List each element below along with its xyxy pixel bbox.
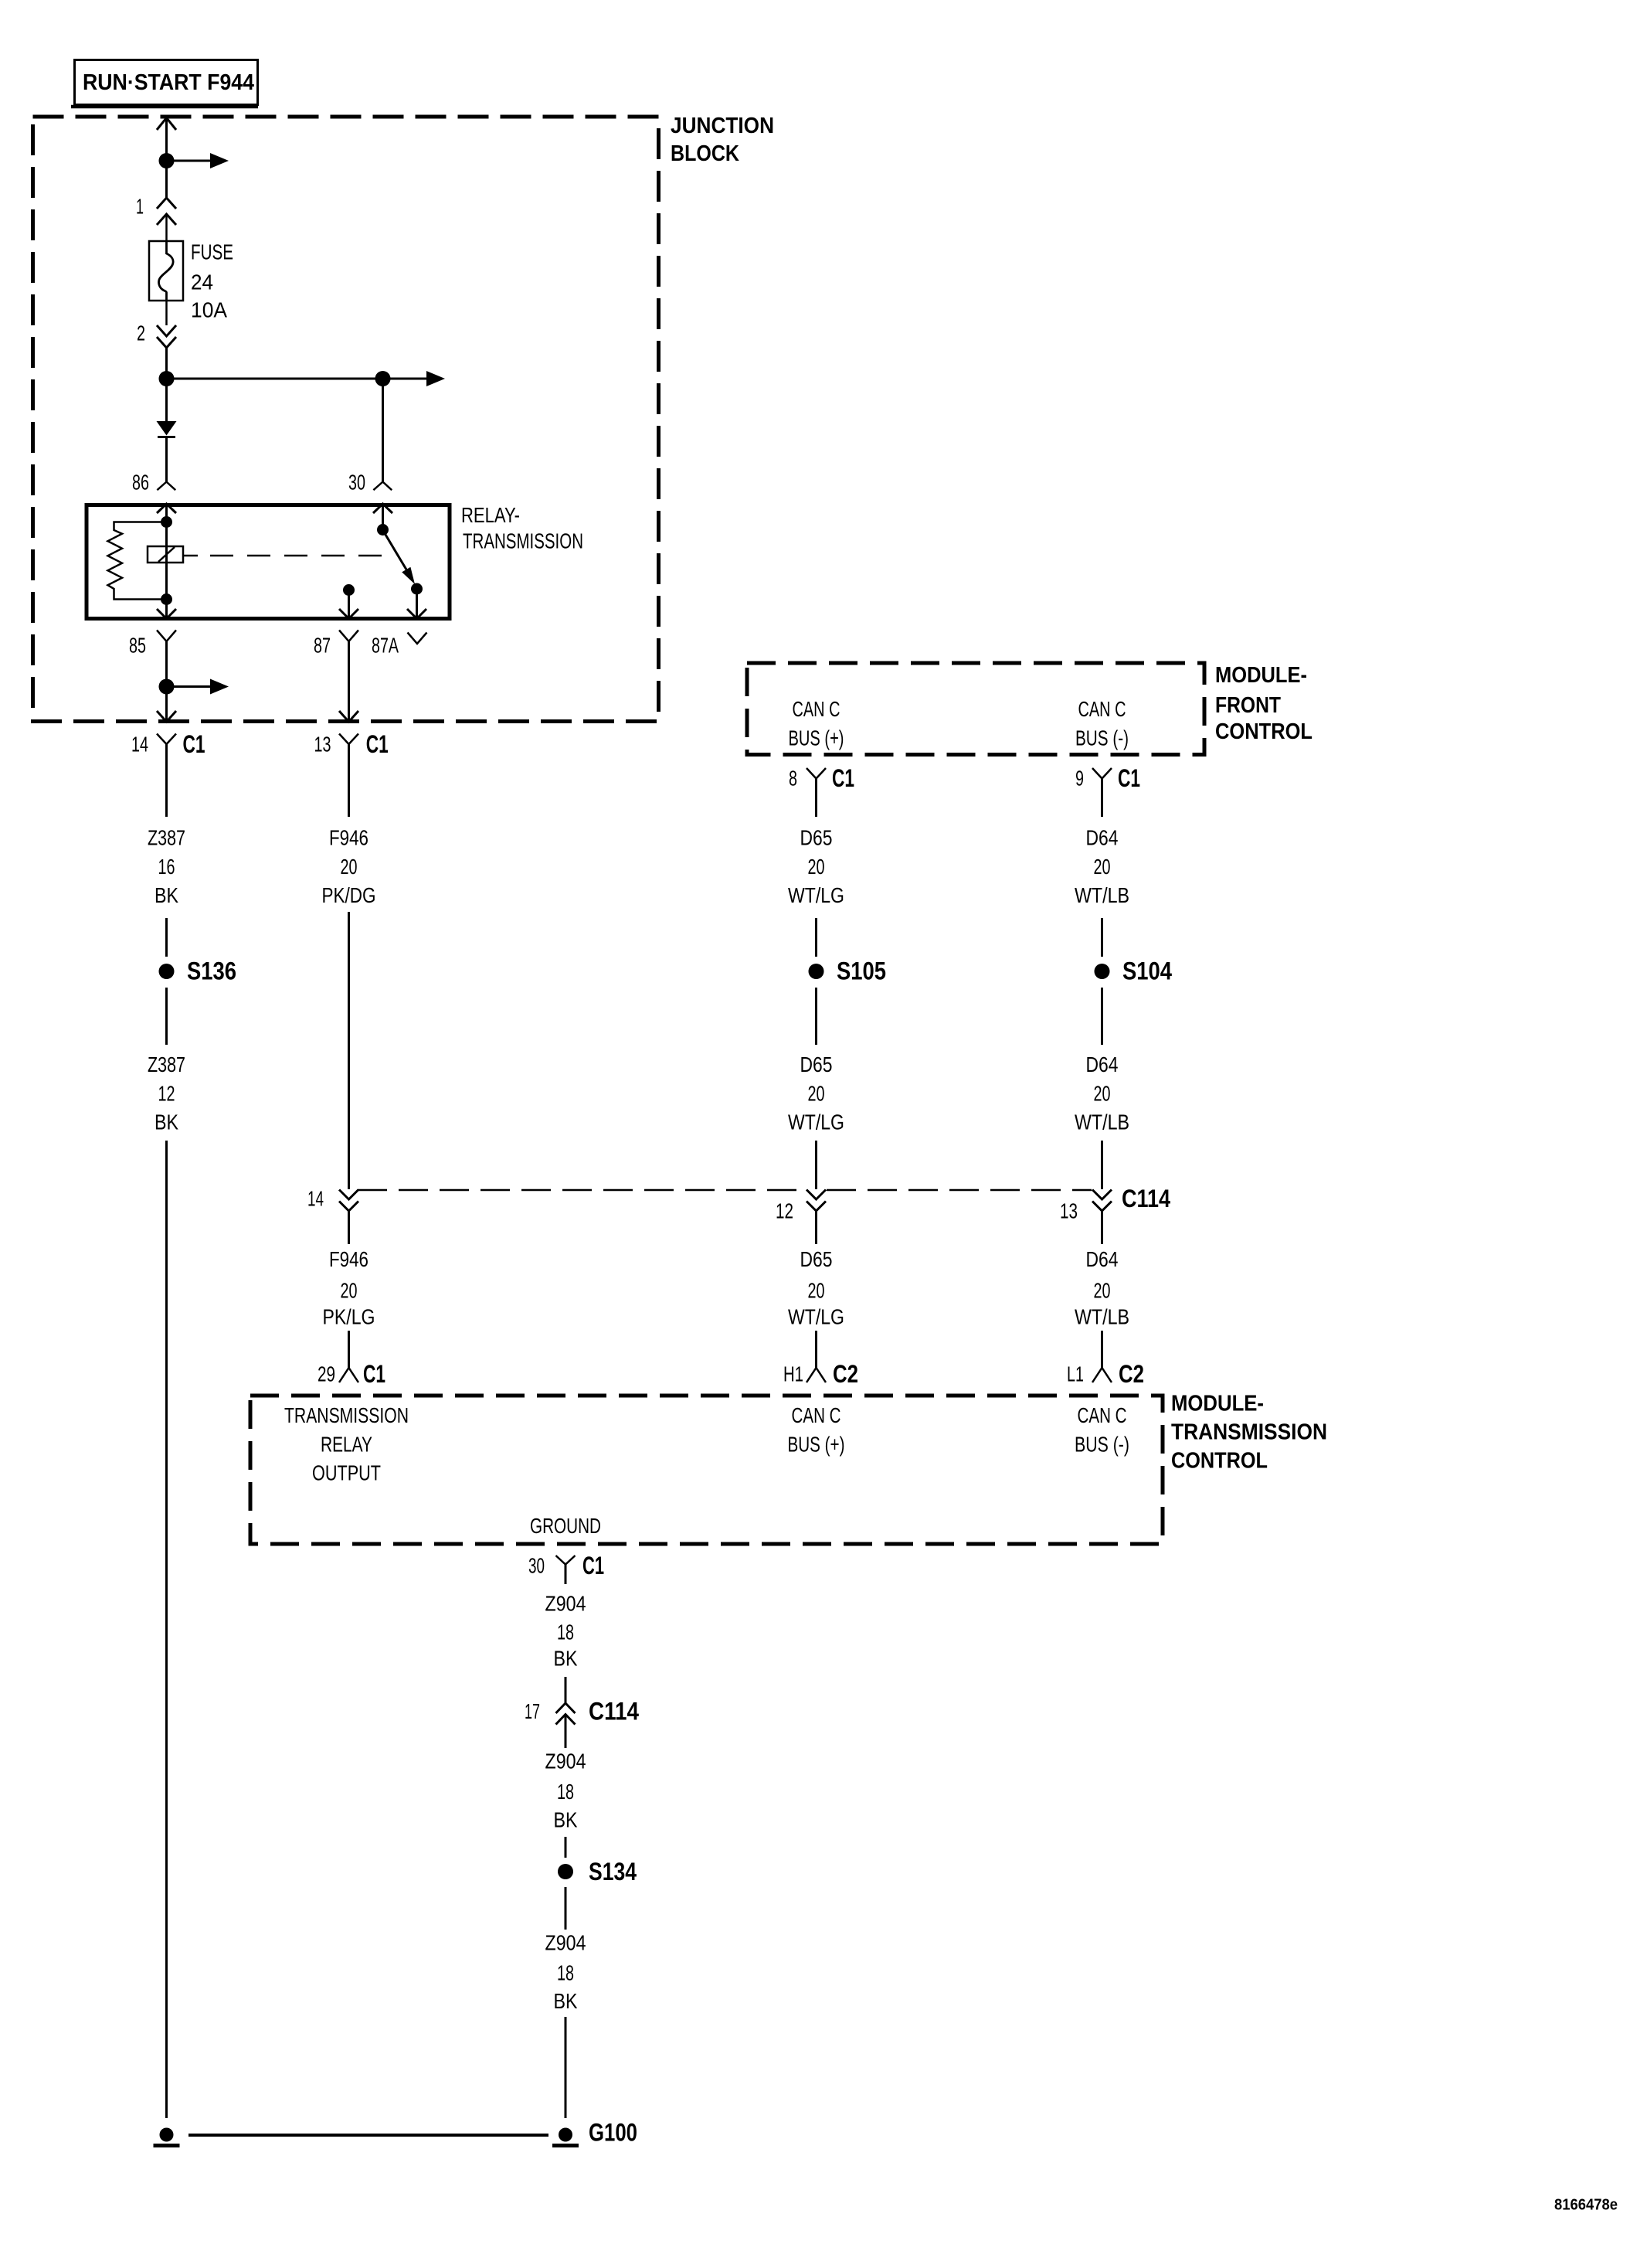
wire below C114 pin 12: [815, 1210, 817, 1244]
wire above S105: [815, 918, 817, 957]
svg-text:20: 20: [808, 1082, 825, 1106]
junction block title: [671, 114, 774, 166]
wire label D65 20 WT/LG (third): [788, 1247, 844, 1329]
wire diode to pin 86: [165, 437, 168, 482]
svg-text:BK: BK: [155, 1110, 178, 1134]
wire label D65 20 WT/LG (upper): [788, 826, 844, 908]
diode: [157, 421, 177, 437]
connector 30 C1 (ground): [528, 1552, 604, 1579]
svg-text:PK/LG: PK/LG: [323, 1305, 375, 1329]
pin 87A label: [372, 634, 399, 658]
wire into C114 pin 17: [565, 1677, 567, 1703]
relay switch common node: [377, 524, 389, 536]
pin 85 female connector: [157, 631, 176, 642]
svg-text:20: 20: [1094, 1082, 1111, 1106]
relay coil bottom node: [161, 593, 172, 605]
svg-text:20: 20: [808, 855, 825, 879]
node with branch arrow (85 circuit): [159, 679, 229, 695]
connector chevron into junction block top: [157, 118, 176, 131]
svg-text:H1: H1: [783, 1362, 803, 1386]
module front control dashed box: [747, 663, 1204, 755]
wire branch node to pin 30: [382, 379, 384, 482]
svg-text:85: 85: [129, 634, 146, 658]
relay box: [87, 505, 450, 619]
wire label D64 20 WT/LB (third): [1075, 1247, 1129, 1329]
splice S134: [558, 1858, 637, 1885]
C114 pin 12 chevrons: [776, 1190, 826, 1223]
svg-text:CAN C: CAN C: [793, 697, 840, 721]
connector 17 C114 chevrons: [525, 1698, 639, 1726]
svg-text:MODULE-: MODULE-: [1215, 663, 1307, 688]
svg-text:BUS (+): BUS (+): [789, 726, 844, 750]
connector 14 C1: [131, 730, 205, 758]
svg-text:87A: 87A: [372, 634, 399, 658]
svg-text:BUS (-): BUS (-): [1075, 1433, 1129, 1457]
svg-text:18: 18: [557, 1961, 574, 1985]
svg-text:TRANSMISSION: TRANSMISSION: [463, 529, 583, 553]
svg-text:20: 20: [341, 855, 358, 879]
pin 87A unused connector: [408, 633, 427, 644]
splice S104: [1095, 957, 1173, 985]
wire below S105: [815, 988, 817, 1045]
relay coil input chevron (86 inside): [157, 504, 176, 513]
wire label F946 20 PK/LG: [323, 1247, 375, 1329]
pin 30 label: [348, 471, 365, 495]
wire F946 down to C114: [348, 912, 350, 1189]
connector H1 C2: [783, 1360, 858, 1388]
wire pin2 to node: [165, 347, 168, 379]
svg-text:BUS (-): BUS (-): [1075, 726, 1129, 750]
relay switch common wire: [382, 505, 384, 526]
svg-text:13: 13: [314, 733, 331, 757]
pin 85 label: [129, 634, 146, 658]
wire to ground G100: [565, 2017, 567, 2118]
svg-text:CAN C: CAN C: [1078, 1403, 1127, 1427]
transmission relay output pin label: [284, 1403, 409, 1485]
svg-text:10A: 10A: [191, 298, 227, 322]
relay 87A wire and chevron: [407, 589, 426, 619]
svg-text:BK: BK: [155, 883, 178, 907]
svg-text:18: 18: [557, 1780, 574, 1804]
svg-text:RELAY: RELAY: [321, 1433, 372, 1457]
C114 pin 13 chevrons: [1060, 1190, 1112, 1223]
svg-text:S136: S136: [187, 957, 236, 985]
relay 87 wire and chevron: [339, 590, 358, 619]
svg-text:MODULE-: MODULE-: [1171, 1392, 1264, 1416]
svg-text:WT/LG: WT/LG: [788, 883, 844, 907]
connector 29 C1: [318, 1360, 385, 1388]
pin 1 label: [136, 195, 144, 219]
wire below C114 pin 14: [348, 1210, 350, 1244]
wire label Z387 16 BK: [148, 826, 185, 908]
relay 87 node: [343, 584, 355, 596]
wire above S134: [565, 1837, 567, 1858]
svg-text:WT/LG: WT/LG: [788, 1110, 844, 1134]
svg-text:BK: BK: [554, 1808, 578, 1832]
pin 2 label: [137, 321, 145, 345]
wire label F946 20 PK/DG: [322, 826, 376, 908]
wire node to diode: [165, 379, 168, 422]
svg-text:D65: D65: [800, 1052, 833, 1076]
wire label Z387 12 BK: [148, 1052, 185, 1134]
fuse labels: [191, 240, 233, 322]
svg-text:8: 8: [789, 767, 797, 791]
wire below C114 pin 13: [1101, 1210, 1103, 1244]
wire into pin L1: [1101, 1331, 1103, 1368]
relay label: [461, 503, 583, 553]
relay coil: [148, 546, 183, 563]
relay resistor: [108, 522, 167, 600]
relay 87A node: [411, 583, 423, 595]
wire label Z904 18 BK (second): [545, 1749, 586, 1832]
svg-text:FUSE: FUSE: [191, 240, 233, 264]
module front control pin labels: [789, 697, 1129, 750]
wire above S104: [1101, 918, 1103, 957]
relay switch blade: [383, 530, 416, 584]
wire 14 C1 down: [165, 744, 168, 817]
svg-text:D65: D65: [800, 826, 833, 850]
svg-text:29: 29: [318, 1362, 335, 1386]
svg-text:16: 16: [158, 855, 175, 879]
svg-text:86: 86: [132, 471, 149, 495]
svg-text:Z904: Z904: [545, 1592, 586, 1616]
wire 13 C1 down: [348, 744, 350, 817]
svg-text:TRANSMISSION: TRANSMISSION: [1171, 1420, 1327, 1445]
wire label Z904 18 BK (third): [545, 1931, 586, 2014]
connector C114 dashed line: [358, 1185, 1170, 1212]
ground pin label: [530, 1514, 601, 1538]
long ground wire left: [165, 1141, 168, 2118]
relay coil to pin 85 chevron: [157, 600, 176, 619]
svg-text:1: 1: [136, 195, 144, 219]
svg-text:D64: D64: [1086, 1052, 1119, 1076]
svg-text:9: 9: [1075, 767, 1084, 791]
svg-text:C114: C114: [589, 1698, 639, 1726]
wire fuse to pin 2: [165, 301, 168, 325]
wire label Z904 18 BK (first): [545, 1592, 586, 1671]
svg-text:Z387: Z387: [148, 1052, 185, 1076]
splice S105: [809, 957, 887, 985]
wire below S104: [1101, 988, 1103, 1045]
svg-text:D64: D64: [1086, 826, 1119, 850]
svg-text:12: 12: [776, 1199, 793, 1223]
svg-text:WT/LB: WT/LB: [1075, 1305, 1129, 1329]
connector L1 C2: [1067, 1360, 1144, 1388]
svg-text:GROUND: GROUND: [530, 1514, 601, 1538]
connector 13 C1: [314, 730, 389, 758]
pin 87 label: [314, 634, 331, 658]
wire 9 C1 down: [1101, 778, 1103, 817]
svg-text:TRANSMISSION: TRANSMISSION: [284, 1403, 409, 1427]
svg-text:C1: C1: [366, 730, 389, 758]
wire below S134: [565, 1887, 567, 1930]
svg-text:20: 20: [1094, 1279, 1111, 1303]
ground bus wire: [188, 2134, 548, 2137]
horizontal wire to branch node: [167, 378, 383, 380]
svg-text:Z904: Z904: [545, 1931, 586, 1955]
wire 87 to junction block bottom: [339, 641, 358, 722]
svg-text:20: 20: [808, 1279, 825, 1303]
wire label D64 20 WT/LB (lower): [1075, 1052, 1129, 1134]
svg-text:30: 30: [348, 471, 365, 495]
wire from junction block top to node: [165, 117, 168, 161]
svg-text:JUNCTION: JUNCTION: [671, 114, 774, 138]
svg-text:BK: BK: [554, 1647, 578, 1671]
pin 87 female connector: [339, 631, 358, 642]
wire D64 to C114: [1101, 1141, 1103, 1189]
wire into pin H1: [815, 1331, 817, 1368]
connector 8 C1: [789, 764, 854, 792]
fuse 24 10A: [149, 241, 183, 301]
junction block dashed boundary: [33, 117, 659, 722]
module front control title: [1215, 663, 1313, 744]
svg-text:87: 87: [314, 634, 331, 658]
svg-text:14: 14: [131, 733, 148, 757]
svg-text:PK/DG: PK/DG: [322, 883, 376, 907]
svg-text:12: 12: [158, 1082, 175, 1106]
svg-text:C1: C1: [1118, 764, 1140, 792]
svg-text:F946: F946: [329, 1247, 368, 1271]
relay actuation dashed link: [184, 555, 396, 557]
wire below pin 17: [565, 1715, 567, 1749]
svg-text:BUS (+): BUS (+): [788, 1433, 845, 1457]
svg-text:13: 13: [1060, 1199, 1078, 1223]
wire below S136: [165, 988, 168, 1045]
C114 pin 14 chevrons: [307, 1187, 358, 1212]
wire above S136: [165, 918, 168, 957]
wire ground pin down: [565, 1565, 567, 1585]
svg-text:Z387: Z387: [148, 826, 185, 850]
svg-text:RELAY-: RELAY-: [461, 503, 520, 527]
wire label D65 20 WT/LG (lower): [788, 1052, 844, 1134]
pin 1 double chevron: [157, 198, 176, 225]
module transmission control title: [1171, 1392, 1327, 1474]
relay coil wire: [165, 505, 168, 600]
svg-text:C2: C2: [833, 1360, 858, 1388]
svg-text:C2: C2: [1119, 1360, 1144, 1388]
svg-text:C1: C1: [363, 1360, 385, 1388]
svg-text:OUTPUT: OUTPUT: [312, 1461, 381, 1485]
svg-text:WT/LG: WT/LG: [788, 1305, 844, 1329]
svg-text:L1: L1: [1067, 1362, 1084, 1386]
pin 86 male connector: [157, 482, 175, 491]
svg-text:Z904: Z904: [545, 1749, 586, 1773]
wire pin1 to fuse: [165, 214, 168, 242]
svg-text:20: 20: [1094, 855, 1111, 879]
node below fuse: [159, 371, 175, 386]
svg-text:CAN C: CAN C: [792, 1403, 841, 1427]
branch node with arrow: [375, 371, 446, 386]
svg-text:WT/LB: WT/LB: [1075, 1110, 1129, 1134]
svg-text:2: 2: [137, 321, 145, 345]
splice S136: [159, 957, 237, 985]
svg-text:S105: S105: [837, 957, 886, 985]
svg-text:C1: C1: [582, 1552, 604, 1579]
svg-text:CONTROL: CONTROL: [1171, 1449, 1268, 1474]
wire 85 to node: [165, 641, 168, 687]
svg-text:C114: C114: [1122, 1185, 1170, 1212]
relay switch input chevron (30 inside): [373, 504, 392, 513]
svg-text:18: 18: [557, 1620, 574, 1644]
wire into pin 29: [348, 1331, 350, 1368]
svg-text:S134: S134: [589, 1858, 637, 1885]
wire D65 to C114: [815, 1141, 817, 1189]
svg-text:CONTROL: CONTROL: [1215, 719, 1313, 744]
wire 8 C1 down: [815, 778, 817, 817]
svg-text:20: 20: [341, 1279, 358, 1303]
svg-text:WT/LB: WT/LB: [1075, 883, 1129, 907]
svg-text:CAN C: CAN C: [1078, 697, 1126, 721]
wire node to fuse pin 1: [165, 161, 168, 198]
wire node to junction block bottom: [157, 687, 176, 723]
svg-text:BLOCK: BLOCK: [671, 141, 739, 166]
svg-text:14: 14: [307, 1187, 324, 1211]
svg-text:S104: S104: [1122, 957, 1172, 985]
diagram number: [1554, 2197, 1618, 2214]
wire label D64 20 WT/LB (upper): [1075, 826, 1129, 908]
pin 30 male connector: [373, 482, 392, 491]
svg-text:17: 17: [525, 1699, 540, 1723]
can c bus pins in transmission module: [788, 1403, 1130, 1457]
node with branch arrow (top): [159, 153, 229, 168]
ground terminal left: [154, 2128, 180, 2146]
connector 9 C1: [1075, 764, 1140, 792]
svg-text:F946: F946: [329, 826, 368, 850]
svg-text:C1: C1: [183, 730, 205, 758]
svg-text:G100: G100: [589, 2119, 637, 2147]
module transmission control dashed box: [250, 1396, 1163, 1544]
svg-text:RUN·START F944: RUN·START F944: [83, 70, 254, 95]
pin 86 label: [132, 471, 149, 495]
relay coil top node: [161, 516, 172, 528]
svg-text:C1: C1: [832, 764, 854, 792]
pin 2 double chevron: [157, 325, 176, 348]
svg-text:FRONT: FRONT: [1215, 693, 1281, 718]
svg-text:D65: D65: [800, 1247, 833, 1271]
svg-text:30: 30: [528, 1554, 545, 1578]
svg-text:8166478e: 8166478e: [1554, 2197, 1618, 2214]
svg-text:D64: D64: [1086, 1247, 1119, 1271]
svg-text:BK: BK: [554, 1989, 578, 2013]
svg-text:24: 24: [191, 270, 213, 294]
power source box RUN-START F944: [71, 60, 258, 107]
ground terminal G100: [552, 2119, 637, 2147]
